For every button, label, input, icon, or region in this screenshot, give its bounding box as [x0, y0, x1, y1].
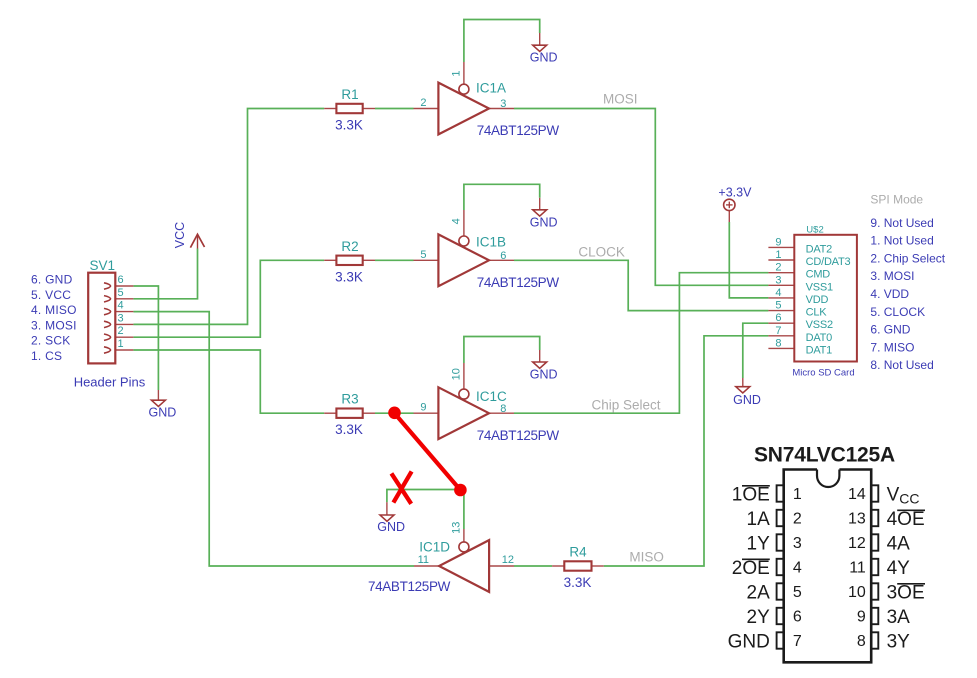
ground GND row1	[533, 45, 547, 51]
svg-text:SN74LVC125A: SN74LVC125A	[754, 444, 895, 467]
pin leads SV1	[115, 285, 133, 287]
svg-text:4: 4	[775, 287, 781, 299]
svg-text:+3.3V: +3.3V	[718, 185, 752, 199]
svg-text:4OE: 4OE	[887, 509, 925, 530]
wire R1 to IC1A input	[375, 108, 414, 110]
svg-text:5: 5	[420, 249, 426, 261]
svg-text:5: 5	[793, 584, 802, 601]
svg-text:2. Chip Select: 2. Chip Select	[870, 251, 945, 265]
svg-text:R1: R1	[341, 87, 358, 102]
svg-text:SV1: SV1	[90, 258, 116, 273]
DIP pin boxes right	[871, 485, 878, 648]
svg-text:MISO: MISO	[629, 550, 664, 565]
svg-text:4: 4	[451, 218, 463, 224]
svg-text:74ABT125PW: 74ABT125PW	[368, 579, 451, 594]
pin lead GND row3	[539, 350, 541, 362]
svg-text:10: 10	[848, 584, 866, 601]
svg-text:1A: 1A	[747, 509, 771, 530]
svg-text:R2: R2	[341, 239, 358, 254]
svg-text:8: 8	[775, 337, 781, 349]
svg-text:2: 2	[420, 97, 426, 109]
buffer IC1A	[438, 83, 489, 135]
svg-text:3: 3	[775, 274, 781, 286]
svg-text:4A: 4A	[887, 534, 911, 555]
wire net MISO2 from U$2 DAT0 to R4	[604, 336, 769, 566]
resistor R1	[336, 104, 362, 113]
svg-text:DAT0: DAT0	[806, 332, 833, 344]
svg-text:3: 3	[118, 312, 124, 324]
svg-text:74ABT125PW: 74ABT125PW	[477, 275, 560, 290]
pin lead GND row2	[539, 198, 541, 210]
svg-text:1OE: 1OE	[732, 485, 770, 506]
wire R2 to IC1B input	[375, 259, 414, 261]
svg-text:6: 6	[500, 250, 506, 262]
svg-text:VSS1: VSS1	[806, 281, 833, 293]
svg-text:U$2: U$2	[806, 224, 823, 235]
svg-text:13: 13	[451, 522, 463, 534]
svg-text:VCC: VCC	[887, 485, 920, 507]
svg-text:GND: GND	[530, 367, 558, 381]
svg-text:8: 8	[857, 633, 866, 650]
svg-text:VDD: VDD	[806, 294, 829, 306]
supply VCC arrow	[190, 234, 204, 248]
svg-text:7. MISO: 7. MISO	[870, 340, 914, 354]
resistor R3	[336, 409, 362, 418]
wire U$2 VSS2 to GND	[743, 323, 769, 378]
pin numbers SV1	[118, 274, 124, 350]
svg-text:6: 6	[793, 609, 802, 626]
buffer IC1C	[438, 387, 489, 439]
ground GND row2	[533, 210, 547, 216]
svg-text:R4: R4	[569, 545, 587, 560]
svg-text:IC1C: IC1C	[476, 389, 507, 404]
svg-text:Chip Select: Chip Select	[592, 397, 661, 412]
svg-text:74ABT125PW: 74ABT125PW	[477, 123, 560, 138]
svg-text:4. VDD: 4. VDD	[870, 287, 909, 301]
svg-text:1. Not Used: 1. Not Used	[870, 234, 933, 248]
pin leads U$2	[768, 246, 794, 248]
svg-text:6. GND: 6. GND	[31, 273, 73, 287]
wire net MISO from SV1 pin 4 to IC1D output	[133, 312, 414, 566]
svg-text:3.3K: 3.3K	[335, 118, 363, 133]
pin lead GND under SV1	[157, 390, 159, 400]
svg-text:SPI Mode: SPI Mode	[870, 193, 923, 207]
svg-text:2A: 2A	[747, 583, 771, 604]
buffer IC1B	[438, 234, 489, 286]
svg-text:12: 12	[848, 535, 866, 552]
svg-text:9: 9	[775, 236, 781, 248]
wire net CS from SV1 pin 1 to R3	[133, 350, 324, 413]
svg-text:6: 6	[775, 312, 781, 324]
svg-text:5: 5	[118, 287, 124, 299]
svg-text:3OE: 3OE	[887, 583, 925, 604]
svg-text:3.3K: 3.3K	[335, 422, 363, 437]
svg-text:3Y: 3Y	[887, 632, 911, 653]
pin leads R2	[324, 259, 336, 261]
svg-text:74ABT125PW: 74ABT125PW	[477, 428, 560, 443]
svg-text:9: 9	[857, 609, 866, 626]
wire +3.3V to U$2 VDD	[729, 222, 768, 298]
pin leads R1	[324, 108, 336, 110]
pin leads IC1C	[414, 412, 439, 414]
svg-text:5. CLOCK: 5. CLOCK	[870, 305, 925, 319]
svg-text:3.3K: 3.3K	[564, 575, 592, 590]
PIN LEADS (dark red thin)	[115, 33, 794, 566]
svg-text:GND: GND	[149, 406, 177, 420]
pin lead GND IC1D enable	[386, 502, 388, 515]
svg-text:1Y: 1Y	[747, 534, 771, 555]
pin numbers U$2	[775, 236, 781, 349]
pin leads IC1B	[414, 259, 439, 261]
svg-text:GND: GND	[530, 51, 558, 65]
svg-text:11: 11	[849, 560, 866, 577]
svg-text:VSS2: VSS2	[806, 319, 833, 331]
annotation junction dot at R3 output	[388, 407, 401, 420]
DIP labels left	[728, 485, 771, 653]
wire net SCK from SV1 pin 2 to R2	[133, 260, 324, 337]
ground GND at IC1D enable	[380, 515, 394, 521]
svg-text:R3: R3	[341, 392, 358, 407]
svg-text:MOSI: MOSI	[603, 91, 638, 106]
ground GND below U$2	[736, 387, 750, 393]
DIP body	[784, 470, 872, 663]
DIP pin boxes left	[777, 485, 784, 648]
wire net CLOCK from IC1B output to U$2 CLK	[514, 260, 768, 310]
resistor R4	[564, 561, 591, 570]
pin lead +3.3V supply	[728, 211, 730, 222]
svg-text:7: 7	[793, 633, 802, 650]
svg-text:VCC: VCC	[173, 222, 187, 248]
DIP pin numbers right 14-8	[848, 486, 866, 650]
pin leads IC1A	[414, 108, 439, 110]
svg-text:3.3K: 3.3K	[335, 269, 363, 284]
annotation red X over GND connection	[391, 471, 411, 503]
svg-text:DAT1: DAT1	[806, 344, 833, 356]
svg-text:2. SCK: 2. SCK	[31, 334, 71, 348]
svg-text:1: 1	[775, 249, 781, 261]
svg-text:GND: GND	[728, 632, 770, 653]
svg-text:9: 9	[420, 402, 426, 414]
svg-text:3. MOSI: 3. MOSI	[31, 318, 77, 332]
note: SPI mode pin list	[870, 216, 945, 372]
svg-text:1: 1	[118, 338, 124, 350]
svg-text:IC1A: IC1A	[476, 81, 506, 96]
wire net VCC from SV1 pin 5	[133, 249, 197, 299]
svg-text:CMD: CMD	[806, 269, 831, 281]
wire net Chip Select from IC1C output to U$2 CMD	[514, 273, 768, 414]
ground GND below SV1	[151, 400, 165, 406]
svg-text:2OE: 2OE	[732, 558, 770, 579]
svg-text:11: 11	[418, 554, 429, 566]
svg-text:1: 1	[793, 486, 802, 503]
svg-text:1. CS: 1. CS	[31, 349, 62, 363]
svg-text:DAT2: DAT2	[806, 243, 833, 255]
svg-text:1: 1	[451, 70, 463, 76]
svg-text:GND: GND	[377, 520, 405, 534]
svg-text:12: 12	[502, 554, 514, 566]
svg-text:6: 6	[118, 274, 124, 286]
svg-text:8. Not Used: 8. Not Used	[870, 358, 933, 372]
svg-text:14: 14	[848, 486, 866, 503]
wire IC1C enable top hat	[464, 337, 540, 364]
wire IC1A enable top hat	[464, 20, 540, 63]
DIP pin numbers left 1-7	[793, 486, 802, 650]
connector SV1 (6-pin header)	[88, 273, 115, 364]
svg-text:Micro SD Card: Micro SD Card	[792, 367, 854, 378]
svg-text:6. GND: 6. GND	[870, 323, 910, 337]
svg-text:3: 3	[793, 535, 802, 552]
svg-text:4. MISO: 4. MISO	[31, 303, 77, 317]
svg-text:2Y: 2Y	[747, 607, 771, 628]
svg-text:2: 2	[775, 262, 781, 274]
svg-text:7: 7	[775, 325, 781, 337]
svg-text:9. Not Used: 9. Not Used	[870, 216, 933, 230]
svg-text:13: 13	[848, 511, 866, 528]
ground GND row3	[533, 362, 547, 368]
svg-text:2: 2	[793, 511, 802, 528]
svg-text:4: 4	[793, 560, 802, 577]
pin lead GND row1	[539, 33, 541, 45]
wire net MOSI-in from SV1 pin 3 to R1	[133, 109, 324, 325]
annotation red line	[395, 413, 460, 489]
wire IC1D enable to R3 junction / GND	[387, 490, 464, 530]
pin lead GND under U$2	[742, 378, 744, 387]
svg-text:10: 10	[451, 368, 463, 380]
buffer IC1D (mirrored)	[439, 540, 489, 592]
wire R3 to IC1C input	[375, 412, 414, 414]
DIP labels right	[887, 485, 925, 653]
svg-text:5. VCC: 5. VCC	[31, 288, 71, 302]
svg-text:3. MOSI: 3. MOSI	[870, 269, 914, 283]
svg-text:CLOCK: CLOCK	[578, 245, 625, 260]
annotation junction dot at IC1D enable	[454, 484, 467, 497]
svg-text:GND: GND	[530, 215, 558, 229]
supply +3.3V	[724, 199, 735, 210]
pin leads R3	[324, 412, 336, 414]
svg-text:Header Pins: Header Pins	[74, 374, 146, 389]
note: header pin function list	[31, 273, 77, 363]
wire R4 to IC1D input	[514, 565, 552, 567]
svg-text:4: 4	[118, 300, 124, 312]
wire net MOSI from IC1A output to U$2 VSS1	[514, 109, 768, 286]
DIP overlines for OE labels	[742, 486, 925, 584]
pin leads R4	[552, 565, 564, 567]
connector U$2 Micro SD Card	[794, 235, 857, 362]
svg-text:CLK: CLK	[806, 307, 828, 319]
resistor R2	[336, 256, 362, 265]
svg-text:4Y: 4Y	[887, 558, 911, 579]
svg-text:3: 3	[500, 98, 506, 110]
svg-text:GND: GND	[733, 393, 761, 407]
svg-text:IC1D: IC1D	[419, 539, 450, 554]
svg-text:IC1B: IC1B	[476, 234, 506, 249]
wire net GND from SV1 pin 6	[133, 286, 158, 390]
svg-text:8: 8	[500, 403, 506, 415]
svg-text:CD/DAT3: CD/DAT3	[806, 256, 851, 268]
pin names U$2	[806, 243, 851, 356]
pin leads IC1D	[489, 565, 514, 567]
svg-text:3A: 3A	[887, 607, 911, 628]
svg-text:2: 2	[118, 325, 124, 337]
wire IC1B enable top hat	[464, 184, 540, 210]
svg-text:5: 5	[775, 300, 781, 312]
